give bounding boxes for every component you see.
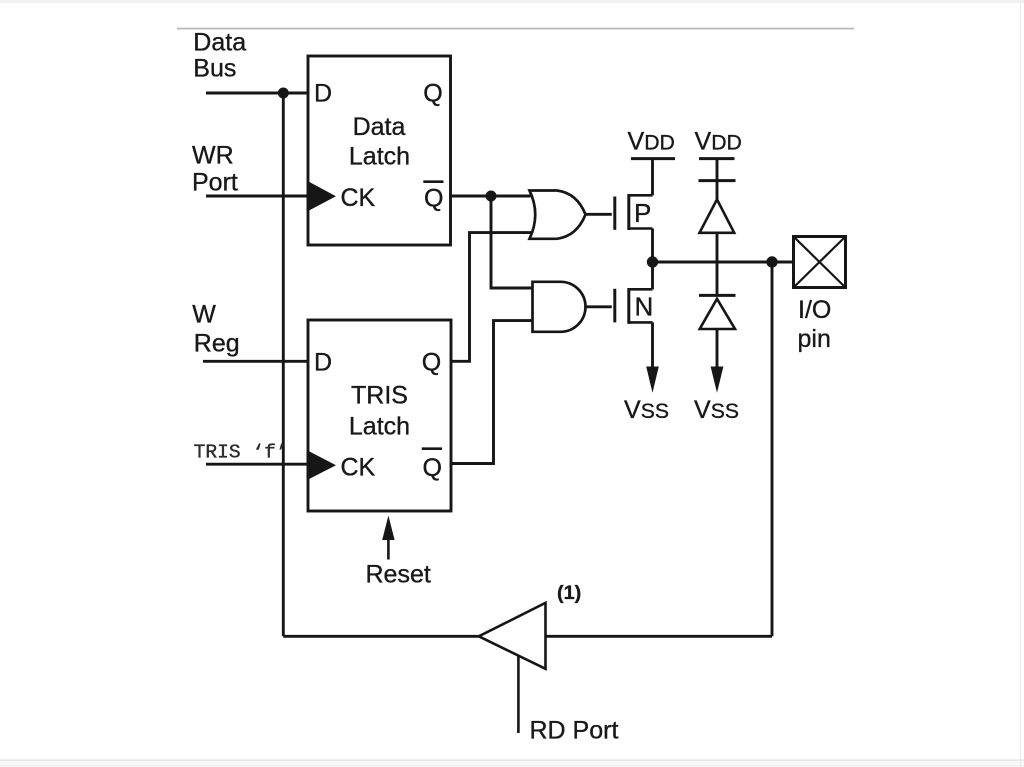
wire diode chain VDD to line — [716, 159, 719, 200]
svg-text:Data: Data — [353, 113, 406, 141]
right edge faint line — [1020, 0, 1022, 767]
wire Data Bus to D of Data Latch — [206, 92, 308, 95]
wire node Qbar down to AND gate top input — [491, 196, 533, 288]
power rail VDD2 — [699, 157, 735, 160]
junction dot I/O node — [766, 256, 777, 267]
svg-text:Q: Q — [424, 184, 443, 212]
and-gate G2 — [533, 282, 586, 332]
power rail VDD1 — [631, 157, 675, 160]
svg-text:Port: Port — [192, 169, 238, 197]
wire data bus vertical down left side — [282, 93, 285, 636]
junction dot output node — [647, 256, 658, 267]
wire AND gate output to N gate — [586, 305, 612, 308]
svg-text:Q: Q — [423, 79, 442, 107]
wire N source down to VSS arrow — [651, 322, 654, 372]
wire TRIS f to TRIS CK — [206, 463, 308, 466]
svg-text:Latch: Latch — [349, 413, 410, 441]
svg-text:I/O: I/O — [798, 296, 831, 324]
junction dot node data bus — [278, 88, 289, 99]
buffer U3 RD Port tri-state — [479, 603, 546, 669]
reset arrow — [387, 538, 390, 560]
diode D2 triangle — [700, 299, 735, 329]
svg-text:CK: CK — [341, 454, 376, 482]
wire W Reg to TRIS D — [203, 360, 308, 363]
flipflop U2 TRIS Latch box — [308, 320, 451, 511]
svg-text:VDD: VDD — [628, 128, 675, 156]
slide top border line — [177, 28, 854, 30]
svg-text:TRIS ‘f’: TRIS ‘f’ — [194, 442, 288, 464]
flipflop U1 Data Latch box — [308, 56, 451, 245]
svg-text:Latch: Latch — [349, 142, 410, 170]
svg-text:Bus: Bus — [193, 55, 236, 83]
wire OR gate output to P gate — [586, 213, 612, 216]
diode D1 cathode bar — [699, 179, 736, 182]
I/O pin box — [794, 237, 846, 288]
svg-text:TRIS: TRIS — [351, 382, 408, 410]
arrow VSS1 — [646, 367, 659, 393]
svg-text:W: W — [192, 300, 216, 328]
wire I/O node down right side — [771, 262, 774, 636]
svg-text:CK: CK — [341, 184, 376, 212]
svg-text:Q: Q — [423, 454, 442, 482]
svg-text:VSS: VSS — [694, 396, 739, 424]
clock triangle Data Latch CK — [307, 181, 336, 212]
svg-text:WR: WR — [192, 141, 234, 169]
arrow VSS2 — [711, 367, 724, 393]
wire lower diode to VSS arrow — [716, 329, 719, 372]
svg-text:N: N — [635, 291, 654, 321]
svg-text:pin: pin — [798, 325, 831, 353]
wire N drain up to output node — [651, 262, 654, 289]
bottom page strip — [0, 759, 1024, 761]
wire P drain down to output node — [651, 229, 654, 263]
svg-text:Data: Data — [193, 29, 246, 57]
or-gate G1 — [530, 191, 586, 239]
diode D2 cathode bar — [699, 294, 736, 297]
diode D1 triangle — [700, 199, 735, 232]
svg-text:D: D — [314, 79, 332, 107]
wire P source to VDD rail — [651, 159, 654, 196]
svg-text:Q: Q — [422, 349, 441, 377]
svg-text:VSS: VSS — [624, 396, 669, 424]
wire TRIS Q to OR gate lower input — [451, 233, 531, 362]
svg-text:Reg: Reg — [194, 329, 240, 357]
clock triangle TRIS Latch CK — [307, 450, 336, 480]
wire TRIS Qbar to AND gate lower input — [451, 321, 533, 464]
svg-text:D: D — [314, 349, 332, 377]
wire buffer enable to RD Port — [517, 656, 520, 733]
svg-text:(1): (1) — [557, 582, 581, 604]
svg-text:RD Port: RD Port — [530, 716, 619, 744]
wire output node to I/O pin — [653, 261, 794, 264]
transistor Q1 P-channel MOSFET — [615, 194, 653, 230]
wire bottom run to buffer output — [283, 635, 479, 638]
top page strip — [0, 0, 1024, 3]
svg-text:Reset: Reset — [366, 561, 431, 589]
svg-text:P: P — [634, 198, 651, 228]
transistor Q2 N-channel MOSFET — [615, 288, 653, 324]
wire right side to buffer — [547, 635, 773, 638]
wire WR Port to CK — [206, 195, 308, 198]
svg-text:VDD: VDD — [695, 128, 742, 156]
wire Data Latch Qbar to OR gate input — [451, 195, 531, 198]
junction dot node Qbar — [486, 191, 497, 202]
